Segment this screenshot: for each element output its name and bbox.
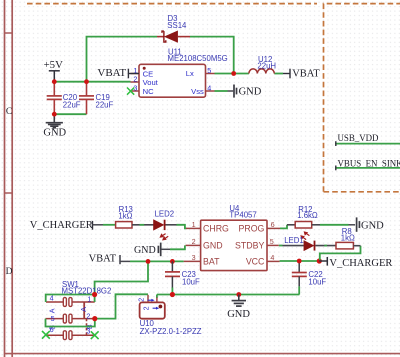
U10 right pin stub [156, 295, 158, 303]
svg-text:PROG: PROG [238, 224, 264, 234]
svg-text:5: 5 [270, 237, 274, 246]
capacitor C22 [292, 261, 307, 295]
wire C19 top riser to diode row [87, 37, 158, 82]
wire V_CHARGER to R13 [103, 224, 116, 226]
U11 pin 4 Vss stub [206, 90, 215, 92]
no-connect cross SW1 pin6 [42, 331, 50, 339]
svg-text:+5V: +5V [44, 59, 63, 71]
wire VBAT label to BAT pin [130, 260, 184, 262]
svg-text:NC: NC [143, 87, 154, 96]
svg-text:GND: GND [361, 221, 384, 232]
svg-text:USB_VDD: USB_VDD [338, 133, 380, 143]
net label VBAT (U11 CE) [97, 67, 139, 79]
capacitor C23 [165, 261, 180, 294]
svg-text:Lx: Lx [186, 69, 194, 78]
svg-text:STDBY: STDBY [235, 241, 264, 251]
U4 pin 1 CHRG stub [186, 227, 201, 229]
wire Vss to GND flag [215, 90, 228, 92]
svg-text:VBAT: VBAT [89, 254, 117, 265]
svg-text:10uF: 10uF [182, 278, 200, 287]
power flag +5V [44, 59, 63, 82]
U4 pin 4 VCC stub [267, 260, 280, 262]
svg-text:CHRG: CHRG [203, 224, 229, 234]
svg-text:Vss: Vss [191, 87, 204, 96]
SW1 row2 contacts [46, 314, 95, 323]
U11 pin 1 CE stub [131, 73, 140, 75]
net label V_CHARGER (left) [30, 220, 103, 231]
wire LED2 to U4 CHRG [166, 225, 187, 229]
svg-text:10uF: 10uF [308, 278, 326, 287]
wire PROG to R12 [280, 225, 295, 229]
junction dot GND stem [236, 292, 241, 297]
ground flag GND (U4 pin2, mirrored sideways) [134, 243, 170, 257]
svg-text:Vout: Vout [143, 78, 159, 87]
svg-text:C: C [6, 107, 12, 117]
svg-text:ME2108C50M5G: ME2108C50M5G [168, 54, 228, 63]
wire VCC to V_CHARGER [280, 260, 320, 262]
svg-text:22uF: 22uF [63, 101, 81, 110]
U10 arrow mark (inside) [153, 307, 160, 310]
wire R12 to GND flag [312, 224, 355, 226]
wire VBAT to SW1 pin1 [94, 295, 96, 303]
wire GND rail (bottom) [157, 294, 300, 296]
LED LED2 [154, 220, 169, 241]
wire SW1 pin2 to pin5 [46, 319, 95, 327]
svg-text:22uH: 22uH [257, 61, 276, 70]
svg-text:BAT: BAT [203, 257, 220, 267]
wire SW1 pin2 to U10 [95, 294, 148, 318]
resistor R13 [116, 222, 132, 228]
svg-text:2: 2 [133, 75, 137, 84]
junction dot SW1 pin2 [92, 316, 97, 321]
wire STDBY to LED1 [279, 245, 304, 247]
svg-text:A: A [79, 307, 88, 312]
svg-text:SS14: SS14 [167, 21, 187, 30]
net label VBAT (bottom) [89, 254, 130, 265]
svg-text:22uF: 22uF [96, 101, 114, 110]
op-amp U11 ME2108C50M5G body [139, 64, 206, 97]
svg-text:2: 2 [136, 298, 145, 302]
U11 pin 5 Lx stub [206, 73, 215, 75]
ground flag GND (U11 Vss, sideways) [228, 85, 262, 98]
wire R8 right lead [353, 245, 360, 247]
net port VBUS_EN_SINK [335, 158, 400, 170]
zone tick D/E [5, 353, 400, 355]
diode D3 SS14 [157, 31, 190, 42]
U10 inner dot [159, 305, 163, 309]
resistor R12 [295, 222, 312, 229]
svg-text:LED2: LED2 [155, 210, 175, 219]
IC U4 TP4057 body [201, 220, 267, 270]
svg-text:VBAT: VBAT [292, 69, 320, 80]
junction dot Lx node [231, 71, 236, 76]
dashed annotation box (right) [324, 4, 400, 192]
junction dot VBAT riser [146, 259, 151, 264]
svg-text:1: 1 [192, 220, 196, 229]
svg-text:GND: GND [134, 245, 156, 256]
ground GND (bottom rail) [227, 295, 250, 320]
zone tick C/D [5, 192, 13, 194]
svg-text:6: 6 [271, 220, 275, 229]
U11 pin 2 Vout stub [131, 81, 140, 83]
switch SW1 MST22D18G2 [46, 298, 95, 340]
ground GND below C20 [43, 114, 66, 138]
svg-text:D: D [6, 267, 13, 277]
svg-text:5: 5 [207, 66, 211, 75]
junction dot C19 top [84, 79, 89, 84]
svg-text:1kΩ: 1kΩ [341, 233, 355, 242]
wire R8 to VCC node [320, 246, 361, 260]
U10 arrow mark (above) [148, 299, 155, 302]
svg-text:2: 2 [142, 306, 151, 310]
wire +5V rail to U11 Vout [54, 81, 130, 83]
inductor U12 [249, 69, 274, 74]
svg-text:GND: GND [43, 128, 66, 139]
junction dot C20 bottom [52, 112, 57, 117]
svg-text:3: 3 [192, 253, 196, 262]
U11 pin1 marker dot [143, 67, 146, 70]
svg-text:2: 2 [192, 237, 196, 246]
sheet frame inner line [11, 0, 13, 357]
svg-text:A: A [48, 308, 57, 313]
net label VBAT (inductor output) [283, 69, 320, 80]
ground flag GND (R12, sideways) [357, 217, 385, 231]
resistor R8 [336, 242, 353, 249]
svg-text:5: 5 [51, 314, 55, 323]
LED LED1 [300, 231, 314, 250]
wire LED1 to R8 [315, 245, 336, 247]
svg-text:4: 4 [207, 83, 211, 92]
wire C20 bottom to C19 bottom [54, 113, 86, 115]
dashed annotation line (top) [27, 3, 317, 5]
wire inductor to VBAT label [274, 73, 283, 75]
svg-text:V_CHARGER: V_CHARGER [30, 220, 93, 231]
wire R13 to LED2 [132, 224, 154, 226]
zone tick B/C [5, 32, 13, 34]
SW1 row1 contacts [46, 298, 95, 307]
svg-text:1.6kΩ: 1.6kΩ [297, 211, 318, 220]
junction dot C23 top [170, 259, 175, 264]
U4 pin 5 STDBY stub [267, 244, 279, 246]
SW1 pole bar A (solid) [83, 302, 85, 319]
junction dot R8 branch [317, 258, 322, 263]
junction dot C22 top [297, 259, 302, 264]
SW1 pole bar B (dashed) [86, 319, 88, 336]
junction dot +5V/C20 [52, 79, 57, 84]
capacitor C19 [79, 82, 94, 115]
net port USB_VDD [335, 133, 400, 146]
no-connect cross on pin 3 [127, 88, 134, 95]
svg-text:LED1: LED1 [284, 236, 304, 245]
svg-text:1kΩ: 1kΩ [118, 211, 132, 220]
wire VBAT riser to SW1 [95, 261, 148, 294]
U11 pin 3 NC stub [131, 90, 140, 92]
capacitor C20 [47, 82, 62, 115]
wire Lx pin to inductor [215, 73, 249, 75]
svg-text:GND: GND [239, 86, 262, 97]
svg-text:GND: GND [203, 241, 223, 251]
svg-text:VCC: VCC [246, 257, 265, 267]
svg-text:4: 4 [270, 253, 274, 262]
svg-text:ZX-PZ2.0-1-2PZZ: ZX-PZ2.0-1-2PZZ [140, 327, 202, 336]
wire VBAT to SW1 pin4 [46, 295, 95, 303]
junction dot C23 bottom [170, 292, 175, 297]
junction dot SW1 top [92, 292, 97, 297]
SW1 row3 contacts [46, 331, 95, 340]
no-connect cross SW1 pin3 [91, 331, 99, 339]
sheet frame outer line [4, 0, 6, 357]
connector U10 ZX-PZ2.0-1-2PZZ body [140, 302, 165, 318]
svg-text:V_CHARGER: V_CHARGER [329, 258, 392, 269]
wire GND flag to U4 pin2 [170, 245, 185, 249]
svg-text:VBUS_EN_SINK: VBUS_EN_SINK [338, 158, 400, 168]
U4 pin 3 BAT stub [184, 260, 201, 262]
U4 pin 6 PROG stub [267, 227, 280, 229]
wire diode anode to Lx riser [190, 37, 234, 74]
U4 pin 2 GND stub [186, 244, 201, 246]
net label V_CHARGER (right) [319, 257, 392, 269]
svg-text:VBAT: VBAT [97, 67, 126, 79]
svg-text:GND: GND [227, 309, 250, 320]
svg-text:TP4057: TP4057 [229, 211, 256, 220]
svg-text:1: 1 [87, 295, 91, 304]
U10 left pin stub [147, 295, 149, 303]
